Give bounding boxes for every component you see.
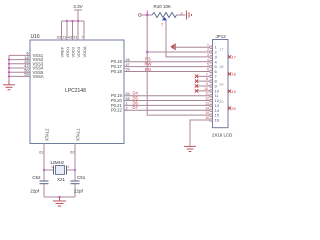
ground below JP12 — [184, 146, 196, 151]
wire VDDA pin 7 — [81, 21, 87, 58]
svg-text:X21: X21 — [57, 177, 66, 182]
svg-text:VSSA: VSSA — [33, 74, 44, 79]
svg-text:2: 2 — [126, 106, 128, 110]
wire P0.16 RS pin 46 to JP12 pin 4 — [111, 57, 210, 64]
svg-text:3: 3 — [207, 53, 209, 57]
crystal X21 12MHz — [44, 160, 75, 182]
wire stub pin 9 no-connect — [195, 84, 210, 87]
svg-text:8: 8 — [206, 77, 208, 81]
svg-text:P0.22: P0.22 — [111, 108, 123, 113]
svg-text:4: 4 — [207, 58, 209, 62]
pin numbers blue inside JP12 — [215, 45, 220, 123]
wire P0.20 D5 pin 55 to JP12 pin 12 — [111, 96, 210, 103]
pin numbers 17-20 inside JP12 right — [219, 47, 224, 105]
svg-text:62: 62 — [70, 151, 74, 155]
pin numbers red outside JP12 — [204, 43, 209, 120]
wire VREF pin 63 — [57, 21, 65, 58]
wire VDD1 pin 23 — [62, 21, 70, 58]
svg-text:EN: EN — [145, 67, 151, 72]
svg-text:2X16 LCD: 2X16 LCD — [212, 133, 232, 138]
svg-text:2: 2 — [161, 23, 163, 27]
svg-text:5: 5 — [207, 63, 209, 67]
svg-text:18: 18 — [219, 64, 224, 69]
svg-text:1: 1 — [126, 102, 128, 106]
wire VDD top bus — [62, 20, 85, 22]
wire VSS bus left vertical — [8, 55, 10, 80]
svg-text:16: 16 — [205, 116, 209, 120]
op-amp U16 LPC2148 chip body — [30, 34, 124, 144]
node junction dots on VDD bus — [66, 20, 79, 22]
svg-text:C51: C51 — [77, 175, 86, 180]
svg-text:13: 13 — [205, 101, 209, 105]
wire VSS2 pin 18 — [9, 55, 44, 62]
wire P0.21 D6 pin 1 to JP12 pin 13 — [111, 100, 210, 107]
pin 18 no-connect X — [228, 72, 236, 76]
wire VSSA pin 59 — [9, 72, 44, 79]
svg-text:6: 6 — [207, 67, 209, 71]
svg-text:XTAL2: XTAL2 — [45, 128, 50, 141]
svg-text:D7: D7 — [133, 105, 139, 110]
svg-text:P0.18: P0.18 — [111, 69, 123, 74]
pin 20 no-connect X — [228, 107, 236, 111]
svg-text:LPC2148: LPC2148 — [65, 88, 86, 94]
svg-text:43: 43 — [68, 36, 72, 40]
wire wiper to JP12 pin 3 — [166, 21, 210, 57]
wire stub pin 8 no-connect — [195, 79, 210, 82]
wire VSS1 pin 6 — [9, 51, 44, 58]
capacitor C51 22pf — [71, 170, 86, 197]
svg-text:15: 15 — [205, 111, 209, 115]
wire XTAL1 pin 62 — [70, 128, 80, 170]
node junction dots on VSS bus — [8, 59, 10, 78]
svg-text:63: 63 — [57, 36, 61, 40]
wire supply to JP12 pin 2 — [147, 51, 209, 53]
svg-text:47: 47 — [126, 63, 130, 67]
wire VSS3 pin 25 — [9, 59, 44, 66]
svg-text:VDD3: VDD3 — [76, 46, 81, 57]
svg-text:2: 2 — [68, 165, 70, 169]
svg-text:11: 11 — [205, 92, 209, 96]
wire stub pin 10 no-connect — [195, 89, 210, 92]
svg-text:10: 10 — [204, 87, 208, 91]
wire VSS4 pin 42 — [9, 63, 44, 70]
wire stub pin 7 no-connect — [195, 75, 210, 78]
svg-text:53: 53 — [126, 68, 130, 72]
svg-text:46: 46 — [126, 58, 130, 62]
power arrow to JP12 pin 1 — [170, 44, 209, 51]
svg-text:20: 20 — [232, 107, 236, 111]
svg-text:1: 1 — [207, 43, 209, 47]
ground left VSS — [3, 81, 15, 90]
svg-text:RW: RW — [145, 62, 152, 67]
pin 17 no-connect X — [228, 55, 236, 59]
svg-text:59: 59 — [24, 72, 29, 77]
svg-text:XTAL1: XTAL1 — [76, 128, 81, 141]
capacitor C52 22pf — [30, 170, 48, 197]
svg-text:14: 14 — [205, 106, 209, 110]
svg-text:54: 54 — [126, 92, 130, 96]
pin circles JP12 left side pins 1-16 — [210, 46, 213, 121]
node junction crystal right — [74, 169, 76, 171]
svg-text:55: 55 — [126, 97, 130, 101]
wire JP12 pin 16 to ground — [190, 120, 210, 146]
wire VDD2 pin 43 — [68, 21, 76, 58]
ground rotated at R10 right — [187, 11, 192, 20]
svg-text:19: 19 — [219, 81, 224, 86]
wire P0.18 EN pin 53 to JP12 pin 6 — [111, 67, 210, 74]
svg-text:C52: C52 — [32, 175, 41, 180]
wire P0.17 RW pin 47 to JP12 pin 5 — [111, 62, 210, 70]
svg-text:3: 3 — [181, 12, 183, 16]
svg-text:20: 20 — [219, 99, 224, 104]
svg-text:U16: U16 — [31, 34, 40, 40]
wire crystal ground rail — [44, 196, 75, 198]
pin 19 no-connect X — [228, 90, 236, 94]
wire P0.22 D7 pin 2 to JP12 pin 14 — [111, 105, 210, 113]
node junction supply tap to pin 2 — [146, 51, 148, 53]
svg-text:19: 19 — [232, 90, 236, 94]
svg-text:R10 10K: R10 10K — [154, 4, 172, 9]
svg-text:9: 9 — [206, 82, 208, 86]
svg-text:16: 16 — [215, 117, 220, 122]
wire P0.19 D4 pin 54 to JP12 pin 11 — [111, 91, 210, 98]
wire pot left down to JP12 pin 15 — [147, 15, 209, 115]
svg-text:VDD1: VDD1 — [65, 46, 70, 57]
wire VSS5 pin 50 — [9, 67, 44, 74]
node junction rail center — [58, 196, 60, 198]
ground below crystal — [53, 197, 66, 206]
svg-text:18: 18 — [232, 73, 236, 77]
node junction pot left lead — [146, 11, 148, 17]
svg-text:2: 2 — [207, 48, 209, 52]
svg-text:17: 17 — [232, 55, 236, 59]
svg-text:1: 1 — [51, 165, 53, 169]
power 3.3V symbol — [73, 4, 82, 21]
svg-text:23: 23 — [62, 36, 66, 40]
wire VDD3 pin 51 — [73, 21, 81, 58]
op-amp JP12 connector 2x16 LCD — [212, 34, 232, 138]
svg-text:VREF: VREF — [60, 46, 65, 57]
svg-text:VDDA: VDDA — [82, 46, 87, 57]
resistor R10 10K potentiometer — [138, 4, 185, 18]
wire XTAL2 pin 61 — [39, 128, 49, 170]
svg-text:VDD2: VDD2 — [71, 46, 76, 57]
svg-text:7: 7 — [81, 36, 83, 40]
transistor wiper arrow of R10 — [161, 17, 167, 27]
svg-text:3.3V: 3.3V — [73, 4, 82, 9]
svg-text:22pf: 22pf — [30, 189, 40, 194]
svg-text:JP12: JP12 — [216, 34, 227, 39]
svg-text:61: 61 — [39, 151, 43, 155]
node junction crystal left — [43, 169, 45, 171]
svg-text:17: 17 — [219, 47, 224, 52]
svg-text:12: 12 — [205, 97, 209, 101]
svg-text:7: 7 — [206, 72, 208, 76]
svg-text:22pf: 22pf — [74, 189, 84, 194]
svg-text:51: 51 — [73, 36, 77, 40]
